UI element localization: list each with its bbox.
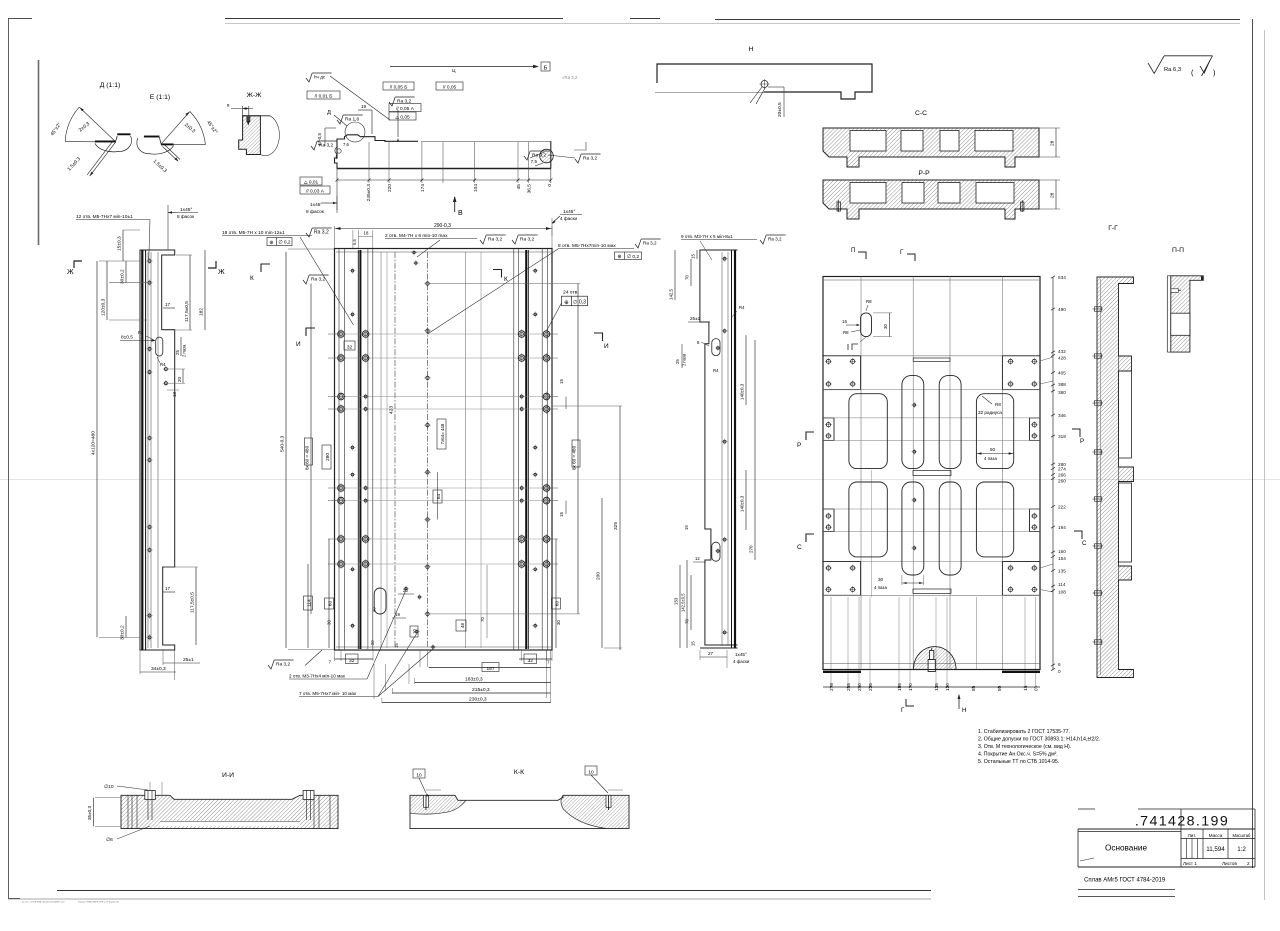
svg-text:34±0,3: 34±0,3 bbox=[151, 666, 166, 672]
svg-text:25±1: 25±1 bbox=[690, 316, 701, 321]
svg-text:9 отв. М3-7Н х 5 міл-8±1: 9 отв. М3-7Н х 5 міл-8±1 bbox=[681, 234, 733, 239]
svg-text:Ж: Ж bbox=[218, 267, 225, 276]
svg-text:170: 170 bbox=[908, 683, 913, 691]
svg-text:20: 20 bbox=[370, 640, 375, 645]
svg-text:Н: Н bbox=[962, 707, 966, 714]
svg-text:140±0,3: 140±0,3 bbox=[740, 495, 745, 512]
svg-text:18 отв. М5-7Н х 10 min-12±1: 18 отв. М5-7Н х 10 min-12±1 bbox=[222, 230, 285, 236]
svg-text:R8: R8 bbox=[866, 299, 872, 304]
side plate right lower bbox=[1030, 509, 1041, 532]
svg-text:// 0,05: // 0,05 bbox=[443, 84, 457, 90]
svg-text:7: 7 bbox=[547, 660, 550, 665]
svg-text:Ra 3,2: Ra 3,2 bbox=[314, 230, 329, 236]
svg-text:Ra 6,3: Ra 6,3 bbox=[1164, 67, 1181, 73]
svg-text:7х64= 448: 7х64= 448 bbox=[440, 423, 445, 444]
svg-text:Ra 3,2: Ra 3,2 bbox=[643, 241, 657, 246]
section Ж-Ж bbox=[227, 92, 279, 156]
svg-text:10: 10 bbox=[412, 629, 417, 634]
svg-text:380: 380 bbox=[1058, 390, 1066, 395]
svg-text:16: 16 bbox=[842, 319, 847, 324]
svg-text:15: 15 bbox=[559, 511, 564, 517]
svg-text:15±0,3: 15±0,3 bbox=[117, 236, 123, 251]
svg-text:540-0,3: 540-0,3 bbox=[280, 435, 286, 452]
svg-text:Ra 3,2: Ra 3,2 bbox=[532, 153, 546, 159]
svg-text:Масса: Масса bbox=[1209, 833, 1223, 838]
svg-text:117,5±0,5: 117,5±0,5 bbox=[190, 592, 196, 613]
screws in Р-Р bbox=[837, 202, 840, 211]
hole in view Н bbox=[761, 81, 768, 88]
svg-text:25: 25 bbox=[675, 359, 680, 364]
svg-text:278: 278 bbox=[829, 683, 834, 691]
right side view bbox=[669, 234, 815, 668]
svg-text:Р: Р bbox=[797, 442, 801, 449]
svg-text:0: 0 bbox=[1058, 669, 1061, 674]
bottom small holes bbox=[405, 587, 407, 589]
svg-text:423: 423 bbox=[389, 406, 395, 414]
svg-text:255: 255 bbox=[846, 683, 851, 691]
svg-text:50: 50 bbox=[990, 447, 996, 452]
В right dim ladder bbox=[1051, 275, 1066, 674]
svg-text:К-К: К-К bbox=[514, 769, 524, 776]
svg-text:∅6: ∅6 bbox=[106, 837, 113, 843]
svg-text:17: 17 bbox=[165, 586, 171, 591]
svg-text:245±0,3: 245±0,3 bbox=[366, 184, 372, 202]
svg-text:194: 194 bbox=[1058, 525, 1066, 530]
svg-text:Ra 3,2: Ra 3,2 bbox=[488, 237, 502, 243]
svg-text:20: 20 bbox=[177, 376, 182, 382]
svg-text:4 паза: 4 паза bbox=[874, 585, 887, 590]
svg-text:154: 154 bbox=[1058, 556, 1066, 561]
svg-text:142,5: 142,5 bbox=[669, 288, 674, 300]
svg-text:290-0,3: 290-0,3 bbox=[434, 223, 451, 229]
svg-text:28: 28 bbox=[1050, 140, 1056, 146]
center hole column 7x64 bbox=[426, 282, 429, 285]
svg-text:8 отв. М5-7Нх7min-10 мах: 8 отв. М5-7Нх7min-10 мах bbox=[558, 243, 616, 249]
svg-text:405: 405 bbox=[1058, 371, 1066, 376]
svg-text:220: 220 bbox=[387, 184, 393, 192]
svg-text:Е (1:1): Е (1:1) bbox=[150, 94, 170, 101]
svg-text:∅ 0,2: ∅ 0,2 bbox=[627, 254, 640, 260]
svg-text:Б: Б bbox=[544, 65, 548, 71]
svg-text:64: 64 bbox=[436, 494, 442, 500]
svg-text:В: В bbox=[458, 210, 463, 217]
svg-text:Р: Р bbox=[1080, 438, 1084, 445]
svg-text:С: С bbox=[1082, 540, 1087, 547]
svg-text:432: 432 bbox=[1058, 349, 1066, 354]
svg-text:2 отв. М4-7Н х 6 min-10 max: 2 отв. М4-7Н х 6 min-10 max bbox=[385, 233, 448, 239]
bottom dim ladder bbox=[334, 650, 336, 661]
svg-text:R4: R4 bbox=[713, 368, 719, 373]
К-К labels 10 bbox=[413, 769, 425, 778]
slot bottom left of main view bbox=[374, 588, 386, 614]
detail view Е (1:1) bbox=[137, 94, 219, 174]
svg-text:Ra 3,2: Ra 3,2 bbox=[276, 662, 290, 668]
svg-text:120: 120 bbox=[945, 683, 950, 691]
svg-text:346: 346 bbox=[1058, 413, 1066, 418]
svg-text:// 0,05 Б: // 0,05 Б bbox=[390, 84, 408, 90]
svg-text:7,6: 7,6 bbox=[343, 142, 349, 147]
side plate left upper bbox=[823, 418, 834, 441]
left rail lines bbox=[338, 249, 340, 651]
svg-text:П: П bbox=[851, 247, 855, 254]
svg-text:183±0,3: 183±0,3 bbox=[465, 677, 483, 683]
holes in middle slot bbox=[913, 404, 916, 407]
svg-text:1х45°: 1х45° bbox=[735, 652, 747, 657]
view Н bbox=[655, 46, 872, 117]
svg-text:48: 48 bbox=[460, 623, 465, 628]
svg-text:60: 60 bbox=[328, 601, 333, 607]
svg-text:18: 18 bbox=[364, 231, 369, 236]
svg-text:17: 17 bbox=[165, 302, 171, 307]
svg-text:30: 30 bbox=[883, 324, 888, 329]
side plate left lower bbox=[823, 509, 834, 532]
svg-text:280: 280 bbox=[325, 453, 331, 461]
bottom callouts bbox=[268, 660, 274, 669]
svg-text:114: 114 bbox=[307, 599, 312, 607]
svg-text:⌓ 0,01: ⌓ 0,01 bbox=[304, 179, 319, 185]
svg-text:534: 534 bbox=[1058, 275, 1066, 280]
section К-К bbox=[410, 766, 629, 829]
svg-text:Ra 3,2: Ra 3,2 bbox=[520, 237, 534, 243]
svg-text:120±0,3: 120±0,3 bbox=[101, 298, 107, 316]
svg-text:10: 10 bbox=[416, 772, 422, 778]
general surface finish Ra 6,3 bbox=[1148, 56, 1216, 77]
svg-text:12 отв. М5-7Нх7 міn-10±1: 12 отв. М5-7Нх7 міn-10±1 bbox=[76, 214, 133, 220]
svg-text:13: 13 bbox=[172, 391, 177, 397]
svg-text:142,5±0,5: 142,5±0,5 bbox=[681, 593, 686, 612]
svg-text:Ra 1,6: Ra 1,6 bbox=[345, 117, 359, 123]
section И-И bbox=[87, 772, 338, 843]
svg-text:85: 85 bbox=[971, 685, 976, 691]
section marks Р С right bbox=[1072, 429, 1080, 437]
svg-text:30±0,2: 30±0,2 bbox=[120, 269, 126, 284]
top profile view bbox=[300, 62, 601, 217]
svg-text:Лист 1: Лист 1 bbox=[1183, 861, 1197, 866]
svg-text:428: 428 bbox=[1058, 356, 1066, 361]
bottom left dim stack bbox=[307, 564, 309, 648]
detail view Д (1:1) bbox=[49, 82, 131, 176]
svg-text:260: 260 bbox=[1058, 479, 1066, 484]
right rail lines bbox=[547, 249, 549, 651]
svg-text:Д: Д bbox=[327, 110, 331, 116]
svg-text:5,5: 5,5 bbox=[352, 239, 357, 245]
svg-text:12: 12 bbox=[695, 556, 700, 561]
svg-text:32: 32 bbox=[528, 658, 534, 664]
И-И end blocks bbox=[127, 795, 129, 828]
svg-text:270: 270 bbox=[749, 545, 754, 553]
svg-text:Формат ТРАБСФЕРВ ПЛВ 2-19 Фо: Формат ТРАБСФЕРВ ПЛВ 2-19 Формат А1 bbox=[78, 901, 120, 904]
svg-text:⊕: ⊕ bbox=[617, 254, 621, 260]
slot in left view bbox=[156, 337, 163, 356]
svg-text:hч дс: hч дс bbox=[314, 75, 326, 80]
svg-text:Ж: Ж bbox=[67, 267, 74, 276]
svg-text:32: 32 bbox=[349, 658, 355, 664]
svg-text:√Ra 3,2: √Ra 3,2 bbox=[562, 75, 578, 80]
svg-text:К: К bbox=[250, 275, 254, 282]
hole row lines bbox=[335, 333, 553, 335]
corner plate TL bbox=[823, 356, 861, 390]
svg-text:И: И bbox=[296, 341, 301, 348]
svg-text:R8: R8 bbox=[843, 330, 849, 335]
svg-text:325: 325 bbox=[613, 522, 619, 530]
svg-text:Ra 3,2: Ra 3,2 bbox=[311, 277, 325, 283]
svg-text:R4: R4 bbox=[160, 362, 166, 367]
main front view bbox=[222, 209, 661, 703]
slots upper row В bbox=[849, 394, 887, 469]
svg-text:70: 70 bbox=[685, 275, 690, 280]
svg-text:174: 174 bbox=[420, 184, 426, 192]
svg-text:30: 30 bbox=[556, 620, 561, 625]
svg-text:30±0,2: 30±0,2 bbox=[120, 625, 126, 640]
svg-text:185: 185 bbox=[897, 683, 902, 691]
svg-text:70: 70 bbox=[685, 619, 690, 624]
К-К hatched ends bbox=[410, 795, 466, 814]
surface finish and tolerance callouts bbox=[306, 73, 312, 82]
svg-text:8х 60 = 480: 8х 60 = 480 bbox=[305, 445, 310, 470]
bottom hump В bbox=[914, 647, 957, 670]
svg-text:40: 40 bbox=[372, 607, 377, 612]
svg-text:∅10: ∅10 bbox=[104, 784, 114, 790]
svg-text:36,5: 36,5 bbox=[527, 184, 533, 194]
svg-text:60: 60 bbox=[555, 601, 560, 607]
svg-text:230±0,3: 230±0,3 bbox=[469, 697, 487, 703]
svg-text:225: 225 bbox=[868, 683, 873, 691]
svg-text:20±0,5: 20±0,5 bbox=[777, 102, 783, 117]
svg-text:15: 15 bbox=[394, 643, 399, 648]
svg-text:318: 318 bbox=[1058, 434, 1066, 439]
svg-text:П-П: П-П bbox=[1172, 247, 1184, 254]
small bars between slots bbox=[913, 358, 950, 361]
svg-text:0: 0 bbox=[1034, 688, 1039, 691]
svg-text:∅ 0,3: ∅ 0,3 bbox=[573, 300, 586, 306]
svg-text:240: 240 bbox=[857, 683, 862, 691]
svg-text:104: 104 bbox=[473, 184, 479, 192]
corner plate BL bbox=[823, 562, 861, 596]
svg-text:32: 32 bbox=[347, 344, 353, 350]
svg-text:Ц: Ц bbox=[452, 68, 456, 73]
svg-text:5. Остальные ТТ по СТБ 1014-95: 5. Остальные ТТ по СТБ 1014-95. bbox=[978, 759, 1059, 765]
svg-text:215±0,3: 215±0,3 bbox=[472, 687, 490, 693]
svg-text:32 радиуса: 32 радиуса bbox=[978, 410, 1002, 415]
svg-text:// 0,05 А: // 0,05 А bbox=[396, 106, 415, 112]
svg-text:30: 30 bbox=[878, 577, 884, 582]
svg-text:∅ 0,2: ∅ 0,2 bbox=[278, 240, 291, 246]
svg-text:Ra 3,2: Ra 3,2 bbox=[768, 237, 782, 242]
svg-text:7: 7 bbox=[329, 660, 332, 665]
svg-text:25: 25 bbox=[175, 349, 180, 355]
dim 290 bbox=[334, 226, 336, 248]
screw П-П bbox=[1171, 289, 1179, 293]
svg-text:4 паза: 4 паза bbox=[984, 456, 997, 461]
svg-text:50: 50 bbox=[997, 685, 1002, 691]
svg-text:1х45°: 1х45° bbox=[310, 202, 322, 208]
svg-text:135: 135 bbox=[1058, 569, 1066, 574]
mounting holes left view bbox=[148, 260, 151, 263]
В bottom dim ladder bbox=[823, 683, 1040, 691]
svg-text:Г-Г: Г-Г bbox=[1108, 225, 1118, 232]
svg-text:182: 182 bbox=[199, 308, 205, 316]
svg-text:45: 45 bbox=[516, 184, 522, 190]
svg-text:70: 70 bbox=[480, 617, 485, 622]
svg-text:Ra 3,2: Ra 3,2 bbox=[583, 156, 597, 162]
svg-text:4 фаски: 4 фаски bbox=[733, 659, 750, 664]
svg-text:28: 28 bbox=[1050, 192, 1056, 198]
svg-text:R4: R4 bbox=[138, 330, 144, 335]
svg-text:19: 19 bbox=[684, 525, 689, 530]
svg-text:222: 222 bbox=[1058, 505, 1066, 510]
svg-text:388: 388 bbox=[1058, 382, 1066, 387]
svg-text:С: С bbox=[797, 544, 802, 551]
svg-text:// 0,03 А: // 0,03 А bbox=[306, 188, 325, 194]
row boundary lines В bbox=[861, 355, 1003, 357]
svg-text:108: 108 bbox=[1058, 590, 1066, 595]
left dims of main view bbox=[285, 252, 287, 648]
tapped holes right rail bbox=[543, 331, 550, 338]
side plate right upper bbox=[1030, 418, 1041, 441]
svg-text:И: И bbox=[604, 343, 609, 350]
svg-text:266: 266 bbox=[1058, 473, 1066, 478]
inner verticals В bbox=[824, 279, 1039, 281]
svg-text:К: К bbox=[504, 276, 508, 283]
svg-text:Ra 3,2: Ra 3,2 bbox=[319, 143, 333, 149]
svg-text:15: 15 bbox=[691, 641, 696, 646]
svg-text:14: 14 bbox=[1023, 685, 1028, 691]
svg-text:уч.об.в. | 1903ГБМВ.741428.199: уч.об.в. | 1903ГБМВ.741428.199 ШИФР 4-19 bbox=[22, 901, 65, 904]
technical notes bbox=[978, 729, 1100, 765]
svg-text:7 отв. М5-7Нх7 міn- 10 мах: 7 отв. М5-7Нх7 міn- 10 мах bbox=[299, 691, 357, 696]
svg-text:Лит.: Лит. bbox=[1188, 833, 1197, 838]
corner plate BR bbox=[1002, 562, 1040, 596]
svg-text:С-С: С-С bbox=[915, 110, 927, 117]
svg-text:15: 15 bbox=[559, 378, 564, 384]
svg-text:4х120=480: 4х120=480 bbox=[91, 431, 97, 455]
svg-text:8 фасок: 8 фасок bbox=[306, 209, 325, 215]
svg-text:187: 187 bbox=[486, 666, 494, 672]
svg-text:2 отв. М3-7Нх4 міл-10 мах: 2 отв. М3-7Нх4 міл-10 мах bbox=[289, 674, 346, 679]
small holes mid-rail columns bbox=[351, 269, 354, 272]
svg-text:24 отв.: 24 отв. bbox=[563, 290, 579, 296]
inner vertical lines and centerlines bbox=[380, 252, 382, 648]
svg-text:R4: R4 bbox=[739, 305, 745, 310]
screws Г-Г bbox=[1095, 307, 1102, 311]
right dims of main view bbox=[577, 284, 579, 614]
svg-text:Листов: Листов bbox=[1222, 861, 1237, 866]
svg-text:274: 274 bbox=[1058, 467, 1066, 472]
section Г-Г bbox=[1093, 225, 1134, 678]
svg-text:8±0,5: 8±0,5 bbox=[121, 335, 133, 341]
svg-text:.741428.199: .741428.199 bbox=[1135, 814, 1229, 830]
svg-text:114: 114 bbox=[1058, 582, 1066, 587]
svg-text:25±1: 25±1 bbox=[183, 657, 194, 663]
svg-text:3. Отв. М технологическое (см.: 3. Отв. М технологическое (см. вид Н). bbox=[978, 744, 1071, 750]
svg-text:2 паза: 2 паза bbox=[182, 344, 187, 357]
slots right view bbox=[712, 339, 720, 356]
svg-text:2. Общие допуски по ГОСТ 30893: 2. Общие допуски по ГОСТ 30893.1: Н14,h1… bbox=[978, 736, 1100, 742]
svg-text:117,5±0,5: 117,5±0,5 bbox=[184, 301, 190, 322]
svg-text:Д (1:1): Д (1:1) bbox=[100, 82, 120, 89]
svg-text:4. Покрытие Ан.Окс.ч. S=5% дм²: 4. Покрытие Ан.Окс.ч. S=5% дм². bbox=[978, 751, 1058, 757]
holes right view bbox=[723, 257, 726, 260]
svg-text:30: 30 bbox=[327, 620, 332, 625]
svg-text:⌓ 0,05: ⌓ 0,05 bbox=[395, 114, 410, 120]
slots lower row В bbox=[849, 482, 887, 557]
svg-text:6: 6 bbox=[1058, 662, 1061, 667]
svg-text:0: 0 bbox=[547, 184, 553, 187]
svg-text:35±0,3: 35±0,3 bbox=[87, 806, 92, 820]
svg-text:7,5: 7,5 bbox=[531, 159, 538, 164]
svg-text:15: 15 bbox=[691, 254, 696, 259]
svg-text:1х45°: 1х45° bbox=[180, 207, 192, 213]
svg-text:1. Стабилизировать 2 ГОСТ 1753: 1. Стабилизировать 2 ГОСТ 17535-77. bbox=[978, 729, 1070, 735]
svg-text:27: 27 bbox=[708, 651, 714, 656]
projection verticals to bottom dims bbox=[830, 597, 832, 687]
svg-text:140±0,3: 140±0,3 bbox=[740, 383, 745, 400]
svg-text:200: 200 bbox=[596, 572, 602, 580]
view arrow В bbox=[454, 197, 456, 212]
section С-С bbox=[823, 110, 1060, 167]
section Р-Р bbox=[823, 170, 1060, 219]
svg-text:Основание: Основание bbox=[1105, 844, 1147, 853]
svg-text:// 0,01 Б: // 0,01 Б bbox=[315, 93, 333, 99]
view В layout bbox=[823, 247, 1087, 714]
К-К screws bbox=[424, 795, 429, 807]
svg-text:19: 19 bbox=[361, 104, 367, 109]
title block bbox=[1078, 809, 1255, 897]
svg-text:И-И: И-И bbox=[222, 772, 234, 779]
svg-text:8 фасок: 8 фасок bbox=[177, 214, 195, 219]
svg-text:R8: R8 bbox=[995, 402, 1001, 407]
И-И bolts bbox=[145, 791, 156, 800]
svg-text:11,594: 11,594 bbox=[1206, 846, 1225, 853]
svg-text:10: 10 bbox=[588, 769, 594, 775]
svg-text:Н: Н bbox=[749, 46, 754, 53]
left side view bbox=[67, 205, 225, 680]
tapped holes left rail bbox=[338, 331, 345, 338]
boxes in Г-Г bbox=[1119, 371, 1132, 458]
corner plate TR bbox=[1002, 356, 1040, 390]
svg-text:160: 160 bbox=[1058, 549, 1066, 554]
svg-text:4 фаски: 4 фаски bbox=[560, 216, 577, 221]
svg-text:135: 135 bbox=[934, 683, 939, 691]
svg-text:Масштаб: Масштаб bbox=[1233, 833, 1252, 838]
top slot detail В bbox=[861, 313, 872, 337]
svg-text:⊕: ⊕ bbox=[564, 300, 569, 306]
svg-text:⊕: ⊕ bbox=[269, 240, 273, 246]
svg-text:Р-Р: Р-Р bbox=[918, 170, 930, 177]
section П-П bbox=[1167, 247, 1203, 352]
holes col2 left view bbox=[164, 368, 167, 371]
svg-text:1х45°: 1х45° bbox=[563, 209, 575, 215]
svg-text:1:2: 1:2 bbox=[1237, 846, 1246, 853]
svg-text:Сплав АМг5 ГОСТ 4784-2019: Сплав АМг5 ГОСТ 4784-2019 bbox=[1084, 878, 1166, 884]
sheet fold line bbox=[0, 479, 1280, 481]
svg-text:153: 153 bbox=[674, 597, 679, 605]
svg-text:2: 2 bbox=[1247, 861, 1250, 866]
svg-text:490: 490 bbox=[1058, 307, 1066, 312]
svg-text:Ж-Ж: Ж-Ж bbox=[247, 92, 263, 99]
